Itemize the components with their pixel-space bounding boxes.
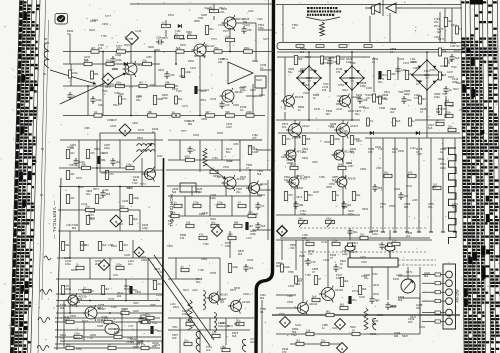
transistor T19 xyxy=(228,299,250,314)
svg-text:100: 100 xyxy=(123,243,128,247)
svg-text:S527: S527 xyxy=(453,88,459,91)
thick section divider (power supply) xyxy=(256,0,274,353)
resistor R110 xyxy=(66,316,74,323)
svg-text:T965: T965 xyxy=(150,304,156,307)
svg-text:S793: S793 xyxy=(92,19,98,22)
wire xyxy=(422,291,445,293)
wire xyxy=(302,240,304,302)
transistor T8 xyxy=(66,293,87,307)
wire xyxy=(418,138,420,232)
svg-text:0.1: 0.1 xyxy=(240,108,244,112)
wire xyxy=(191,186,193,196)
svg-text:50u: 50u xyxy=(66,342,71,346)
wire xyxy=(284,57,286,110)
svg-text:100u: 100u xyxy=(182,312,188,316)
delay line DL1 xyxy=(255,76,266,88)
svg-text:C284: C284 xyxy=(346,162,353,165)
resistor R80 xyxy=(408,170,416,177)
svg-text:470: 470 xyxy=(368,150,373,154)
svg-text:100u: 100u xyxy=(65,262,71,266)
resistor R93 xyxy=(444,18,453,27)
svg-text:G948: G948 xyxy=(252,151,259,154)
wire xyxy=(59,167,130,169)
svg-text:▲: ▲ xyxy=(215,229,218,233)
svg-text:G682: G682 xyxy=(141,259,148,262)
capacitor C15 xyxy=(327,58,337,66)
wire xyxy=(154,52,156,87)
wire xyxy=(419,293,421,326)
bridge rectifier GR1 xyxy=(296,65,322,91)
wire xyxy=(281,240,283,260)
svg-text:50u: 50u xyxy=(288,70,293,74)
resistor R60 xyxy=(336,56,345,64)
svg-text:68k: 68k xyxy=(94,72,99,76)
junction xyxy=(351,119,353,121)
svg-text:5p6: 5p6 xyxy=(428,126,433,130)
margin tick labels xyxy=(40,37,47,197)
svg-text:T708: T708 xyxy=(198,269,204,272)
svg-text:D523: D523 xyxy=(410,316,417,319)
capacitor C6 xyxy=(73,158,85,166)
svg-text:D732: D732 xyxy=(138,129,145,132)
capacitor C36 xyxy=(333,264,343,272)
resistor R61 xyxy=(387,71,396,80)
svg-text:P130: P130 xyxy=(454,50,460,53)
svg-text:L458: L458 xyxy=(224,325,230,328)
test point TP8 xyxy=(277,226,288,237)
VDR zigzag xyxy=(364,308,368,330)
svg-text:25u: 25u xyxy=(360,232,365,236)
svg-text:C423: C423 xyxy=(456,82,463,85)
capacitor C8 xyxy=(110,158,120,166)
resistor R52 xyxy=(181,264,189,271)
svg-text:C104: C104 xyxy=(244,24,251,27)
svg-text:L170: L170 xyxy=(246,237,252,240)
svg-text:100u: 100u xyxy=(434,95,440,99)
svg-text:P638: P638 xyxy=(124,288,130,291)
resistor R129 xyxy=(172,110,180,117)
svg-text:C792: C792 xyxy=(218,24,225,27)
wire xyxy=(422,312,445,314)
svg-text:G100: G100 xyxy=(156,294,163,297)
svg-text:68k: 68k xyxy=(234,220,239,224)
svg-text:AD142: AD142 xyxy=(220,293,229,297)
svg-text:L899: L899 xyxy=(179,75,185,78)
resistor R88 xyxy=(296,338,304,345)
svg-text:100u: 100u xyxy=(116,262,122,266)
svg-text:P513: P513 xyxy=(113,104,119,107)
test point TP5 xyxy=(212,226,223,237)
diode D3 xyxy=(416,131,420,135)
svg-text:2k2: 2k2 xyxy=(356,193,361,197)
wire xyxy=(276,333,420,335)
svg-text:P572: P572 xyxy=(434,25,440,28)
picture tube neck box xyxy=(348,258,436,267)
svg-text:L835: L835 xyxy=(285,150,291,153)
transistor T5 xyxy=(142,167,164,182)
svg-text:2k2: 2k2 xyxy=(347,203,352,207)
horizontal section divider line xyxy=(163,158,164,353)
svg-text:220k: 220k xyxy=(225,244,231,248)
arrow zigzag to note xyxy=(320,22,325,36)
svg-text:T601: T601 xyxy=(323,83,329,86)
svg-text:B250: B250 xyxy=(349,77,355,80)
CRT pin 3 series resistor xyxy=(435,291,441,294)
IF amplifier triangle A1 xyxy=(228,62,253,84)
electrolytic capacitor C12 xyxy=(129,286,138,294)
wire xyxy=(119,187,121,232)
svg-text:R441: R441 xyxy=(373,284,380,287)
svg-text:S150: S150 xyxy=(440,167,446,170)
svg-text:T810: T810 xyxy=(430,69,436,72)
resistor R20 xyxy=(105,171,114,180)
svg-text:330: 330 xyxy=(333,60,338,64)
resistor R138 xyxy=(69,70,79,78)
wire xyxy=(398,275,420,277)
resistor R62 xyxy=(405,71,414,80)
svg-text:P581: P581 xyxy=(290,182,296,185)
svg-text:G636: G636 xyxy=(110,125,117,128)
wire xyxy=(168,159,240,161)
svg-text:50u: 50u xyxy=(86,192,91,196)
svg-text:S983: S983 xyxy=(303,84,309,87)
svg-text:G945: G945 xyxy=(97,325,104,328)
wire xyxy=(290,343,340,345)
svg-text:47n: 47n xyxy=(252,136,257,140)
svg-text:C999: C999 xyxy=(102,23,109,26)
wire xyxy=(308,90,310,112)
svg-text:D522: D522 xyxy=(127,187,134,190)
svg-text:G948: G948 xyxy=(89,211,96,214)
svg-text:C536: C536 xyxy=(286,159,293,162)
svg-text:L818: L818 xyxy=(226,126,232,129)
svg-text:T924: T924 xyxy=(196,191,202,194)
resistor R7 xyxy=(226,110,235,117)
tube heater chain note text xyxy=(307,7,341,16)
svg-text:P493: P493 xyxy=(448,76,454,79)
CRT socket pin 1 xyxy=(446,271,453,278)
wire xyxy=(398,297,420,299)
svg-text:100: 100 xyxy=(172,336,177,340)
miscellaneous reference labels xyxy=(64,7,465,351)
svg-text:25u: 25u xyxy=(321,338,326,342)
resistor R38 xyxy=(211,220,219,227)
wire xyxy=(60,139,163,141)
svg-text:5k6: 5k6 xyxy=(172,190,177,194)
svg-text:S918: S918 xyxy=(350,326,356,329)
svg-text:100u: 100u xyxy=(326,216,332,220)
wire xyxy=(87,86,89,116)
svg-text:25u: 25u xyxy=(236,190,241,194)
svg-text:B250: B250 xyxy=(424,74,430,77)
transistor T17 xyxy=(319,286,343,303)
resistor R48 xyxy=(83,285,91,292)
svg-text:T985: T985 xyxy=(398,91,404,94)
wire xyxy=(426,52,428,60)
svg-text:C254: C254 xyxy=(107,119,114,122)
junction xyxy=(109,312,111,314)
resistor R27 xyxy=(120,204,128,211)
mains bus rounded box xyxy=(277,43,465,50)
svg-text:R507: R507 xyxy=(162,37,169,40)
svg-text:D279: D279 xyxy=(406,271,413,274)
svg-text:10k: 10k xyxy=(70,172,75,176)
resistor R101 xyxy=(379,96,389,104)
svg-text:L310: L310 xyxy=(248,10,254,13)
svg-text:470: 470 xyxy=(408,170,413,174)
svg-text:R883: R883 xyxy=(336,103,343,106)
coil L6 xyxy=(196,332,200,352)
wire xyxy=(229,231,231,258)
svg-text:2n2: 2n2 xyxy=(406,234,411,238)
svg-text:120p: 120p xyxy=(133,196,139,200)
svg-text:330: 330 xyxy=(302,150,307,154)
wire terminal xyxy=(417,231,421,233)
wire terminal xyxy=(429,231,433,233)
wire xyxy=(199,56,201,116)
resistor R108 xyxy=(360,232,368,239)
svg-text:T877: T877 xyxy=(181,130,187,133)
svg-text:25u: 25u xyxy=(434,20,439,24)
svg-text:R661: R661 xyxy=(94,148,101,151)
resistor R5 xyxy=(148,110,157,117)
resistor R102 xyxy=(393,118,401,126)
resistor R66 xyxy=(372,6,375,14)
test point TP10 xyxy=(337,343,348,353)
svg-text:470: 470 xyxy=(90,151,95,155)
svg-text:R789: R789 xyxy=(210,272,217,275)
electrolytic capacitor C33 xyxy=(245,222,253,230)
resistor R2 xyxy=(143,58,152,65)
svg-text:C252: C252 xyxy=(419,326,426,329)
wire xyxy=(63,85,178,87)
junction xyxy=(119,186,121,188)
svg-text:4k7: 4k7 xyxy=(206,110,211,114)
svg-text:10n: 10n xyxy=(366,96,371,100)
wire xyxy=(166,4,214,37)
wire xyxy=(168,329,250,331)
svg-text:8k2: 8k2 xyxy=(424,274,429,278)
resistor R123 xyxy=(176,46,184,53)
svg-text:R569: R569 xyxy=(362,208,369,211)
svg-text:R761: R761 xyxy=(352,290,359,293)
wire xyxy=(451,8,453,42)
svg-text:4k7: 4k7 xyxy=(91,46,96,50)
svg-text:100u: 100u xyxy=(74,331,80,335)
resistor R121 xyxy=(228,232,236,239)
waveform squiggle 2 xyxy=(38,318,50,323)
svg-text:L296: L296 xyxy=(103,189,109,192)
junction xyxy=(87,85,89,87)
resistor R33 xyxy=(174,200,182,207)
svg-text:100: 100 xyxy=(302,236,307,240)
wire xyxy=(167,185,258,187)
capacitor C1 xyxy=(90,96,102,104)
wire xyxy=(442,138,444,232)
svg-text:P727: P727 xyxy=(174,36,180,39)
svg-text:C290: C290 xyxy=(366,87,373,90)
test point TP9 xyxy=(335,319,346,330)
svg-text:120p: 120p xyxy=(186,318,192,322)
svg-text:R614: R614 xyxy=(222,58,229,61)
svg-text:P123: P123 xyxy=(424,70,430,73)
wire xyxy=(419,267,421,334)
svg-text:D654: D654 xyxy=(217,176,224,179)
svg-text:100u: 100u xyxy=(72,71,78,75)
svg-text:D291: D291 xyxy=(180,44,187,47)
svg-text:50u: 50u xyxy=(146,312,151,316)
wire xyxy=(58,230,163,232)
resistor R89 xyxy=(321,338,329,345)
svg-text:8k2: 8k2 xyxy=(106,192,111,196)
svg-text:5p6: 5p6 xyxy=(312,294,317,298)
svg-text:L727: L727 xyxy=(128,325,134,328)
svg-text:100: 100 xyxy=(212,330,217,334)
svg-text:S336: S336 xyxy=(324,141,330,144)
wire xyxy=(276,214,360,216)
wire xyxy=(147,258,149,300)
CRT socket pin 5 xyxy=(446,309,453,316)
svg-text:C709: C709 xyxy=(108,298,115,301)
wire xyxy=(294,120,296,215)
svg-text:5k6: 5k6 xyxy=(362,287,367,291)
resistor R65 xyxy=(438,106,447,115)
svg-text:S275: S275 xyxy=(263,38,269,41)
resistor R72 xyxy=(330,136,340,145)
resistor R100 xyxy=(367,118,375,126)
svg-text:R475: R475 xyxy=(122,308,129,311)
svg-text:P460: P460 xyxy=(76,348,82,351)
junction xyxy=(69,257,71,259)
svg-text:R290: R290 xyxy=(80,244,87,247)
electrolytic capacitor C16 xyxy=(378,71,387,79)
svg-text:G377: G377 xyxy=(125,38,132,41)
svg-text:2k2: 2k2 xyxy=(117,294,122,298)
resistor R122 xyxy=(91,46,99,53)
svg-text:120p: 120p xyxy=(185,70,191,74)
svg-text:D179: D179 xyxy=(64,257,71,260)
svg-text:L452: L452 xyxy=(66,224,72,227)
svg-text:T801: T801 xyxy=(172,326,178,329)
svg-text:S636: S636 xyxy=(157,330,163,333)
svg-text:2n2: 2n2 xyxy=(352,244,357,248)
resistor R77 xyxy=(299,216,308,223)
resistor R50 xyxy=(146,312,154,319)
resistor R67 xyxy=(282,136,291,145)
svg-text:P850: P850 xyxy=(194,20,200,23)
svg-text:L443: L443 xyxy=(410,147,416,150)
svg-text:T865: T865 xyxy=(239,87,245,90)
resistor R99 xyxy=(448,124,456,131)
svg-text:D720: D720 xyxy=(341,176,348,179)
svg-text:T653: T653 xyxy=(186,31,192,34)
svg-text:120p: 120p xyxy=(96,98,102,102)
svg-text:R633: R633 xyxy=(304,176,311,179)
svg-text:50u: 50u xyxy=(226,150,231,154)
svg-text:S297: S297 xyxy=(133,302,139,305)
svg-text:R722: R722 xyxy=(406,185,413,188)
wire xyxy=(246,88,262,96)
wire xyxy=(83,322,85,341)
coil L4 xyxy=(203,290,205,309)
svg-text:R684: R684 xyxy=(71,269,78,272)
svg-text:50u: 50u xyxy=(375,298,380,302)
svg-text:470: 470 xyxy=(308,252,313,256)
resistor R74 xyxy=(338,162,346,169)
wire xyxy=(276,239,432,241)
svg-text:47n: 47n xyxy=(157,282,162,286)
svg-text:470: 470 xyxy=(311,260,316,264)
svg-text:100u: 100u xyxy=(334,137,340,141)
coil L8 xyxy=(373,318,376,330)
svg-text:2k2: 2k2 xyxy=(102,243,107,247)
wire xyxy=(56,293,162,295)
svg-text:2k2: 2k2 xyxy=(116,160,121,164)
svg-text:AF117: AF117 xyxy=(302,124,310,128)
capacitor C29 xyxy=(347,228,357,236)
svg-text:L267: L267 xyxy=(348,165,354,168)
coil L5 xyxy=(214,312,216,331)
resistor R21 xyxy=(82,162,91,169)
svg-text:G336: G336 xyxy=(298,70,305,73)
svg-text:68k: 68k xyxy=(166,80,171,84)
svg-text:D507: D507 xyxy=(105,86,112,89)
svg-text:T505: T505 xyxy=(279,313,285,316)
resistor R11 xyxy=(210,5,219,12)
wire xyxy=(184,196,186,216)
svg-text:S308: S308 xyxy=(338,95,344,98)
svg-text:P378: P378 xyxy=(76,177,82,180)
svg-text:25u: 25u xyxy=(106,58,111,62)
resistor R137 xyxy=(340,302,348,309)
capacitor C35 xyxy=(219,101,229,109)
svg-text:G533: G533 xyxy=(247,259,254,262)
svg-text:T891: T891 xyxy=(198,17,204,20)
wire xyxy=(121,313,123,337)
wire xyxy=(382,138,384,232)
svg-text:G851: G851 xyxy=(201,118,208,121)
svg-text:R805: R805 xyxy=(252,213,259,216)
svg-text:S542: S542 xyxy=(218,299,224,302)
wire xyxy=(422,274,445,276)
svg-text:G180: G180 xyxy=(124,254,131,257)
svg-text:L502: L502 xyxy=(342,206,348,209)
wire xyxy=(168,139,262,141)
svg-text:0.1: 0.1 xyxy=(339,266,343,270)
capacitor C21 xyxy=(398,192,408,200)
svg-text:G728: G728 xyxy=(210,98,217,101)
svg-text:▲: ▲ xyxy=(280,229,283,233)
waveform squiggle 1 xyxy=(40,290,52,295)
svg-text:T974: T974 xyxy=(150,84,156,87)
svg-text:L671: L671 xyxy=(113,274,119,277)
resistor R22 xyxy=(126,162,134,169)
svg-text:8k2: 8k2 xyxy=(340,302,345,306)
svg-text:120p: 120p xyxy=(193,200,199,204)
resistor R18 xyxy=(86,150,95,159)
junction xyxy=(78,186,80,188)
svg-text:G844: G844 xyxy=(394,188,401,191)
resistor R19 xyxy=(66,171,75,180)
wire xyxy=(394,138,396,232)
svg-text:0.1: 0.1 xyxy=(261,204,265,208)
resistor R30 xyxy=(186,154,195,161)
capacitor C28 xyxy=(357,96,367,104)
svg-text:T788: T788 xyxy=(305,274,311,277)
svg-text:AF139: AF139 xyxy=(242,300,250,304)
wire terminal xyxy=(453,231,457,233)
svg-text:25u: 25u xyxy=(184,338,189,342)
